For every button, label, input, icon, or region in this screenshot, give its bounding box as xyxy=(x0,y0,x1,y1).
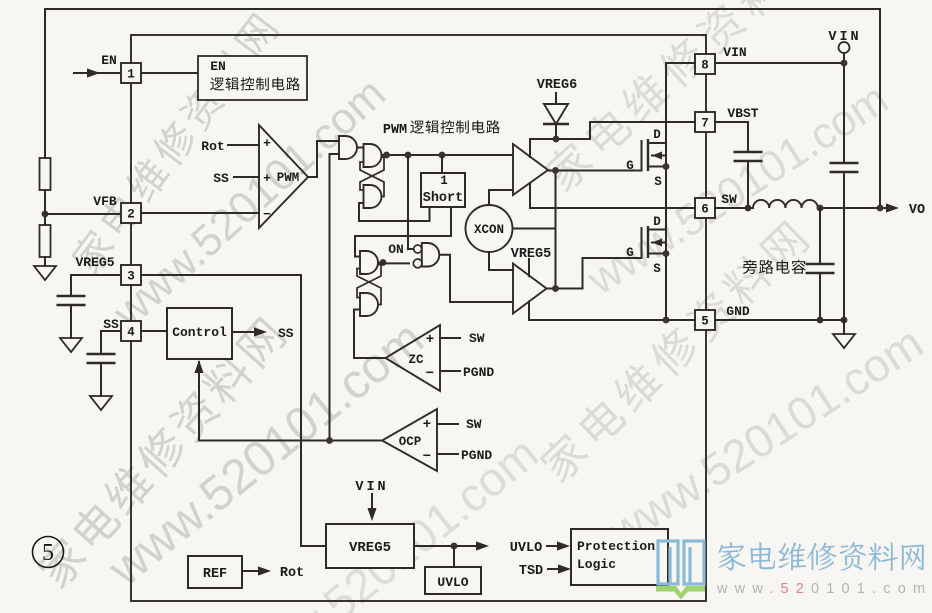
wire gate A to latch xyxy=(357,147,364,149)
wire NAND out to low driver xyxy=(440,255,514,302)
wire SW internal xyxy=(530,207,695,209)
comparator OCP xyxy=(382,409,437,471)
node feedback tap xyxy=(877,205,883,211)
svg-text:Logic: Logic xyxy=(577,557,616,572)
comparator ZC xyxy=(386,325,441,391)
transistor Q1 high FET xyxy=(641,140,643,171)
svg-text:3: 3 xyxy=(127,270,135,284)
svg-text:GND: GND xyxy=(726,304,750,319)
node latch2 out xyxy=(380,259,386,265)
node low gate xyxy=(552,285,558,291)
svg-text:PGND: PGND xyxy=(463,365,494,380)
svg-text:Rot: Rot xyxy=(280,566,304,581)
capacitor C1 on VREG5 xyxy=(71,275,121,296)
pin 8 xyxy=(695,54,715,74)
node C5 gnd xyxy=(817,317,823,323)
svg-text:Protection: Protection xyxy=(577,539,655,554)
wire latch2 to NAND bubble xyxy=(378,262,409,265)
svg-text:D: D xyxy=(653,128,661,142)
svg-text:5: 5 xyxy=(42,540,54,566)
node OCP junction xyxy=(326,437,332,443)
svg-text:SW: SW xyxy=(466,417,482,432)
svg-text:UVLO: UVLO xyxy=(510,541,542,556)
node VREG5 out xyxy=(451,543,457,549)
EN logic block xyxy=(141,72,198,74)
driver high power pins xyxy=(529,139,531,157)
AND gate A xyxy=(339,136,357,159)
wire Q2 drain-source rail xyxy=(665,208,667,320)
node Q2 gnd xyxy=(663,317,669,323)
wire VIN to Q1 drain xyxy=(666,63,695,208)
svg-text:G: G xyxy=(626,159,634,173)
wire Short to latch2 xyxy=(355,207,451,257)
driver high side xyxy=(513,144,548,195)
node main2 xyxy=(405,152,411,158)
svg-text:5: 5 xyxy=(701,315,709,329)
svg-text:SS: SS xyxy=(103,317,119,332)
pin 2 xyxy=(121,203,141,223)
ground below C2 xyxy=(90,396,112,410)
svg-text:8: 8 xyxy=(701,59,709,73)
wire VBST external xyxy=(715,122,748,152)
svg-text:www.520101.com: www.520101.com xyxy=(716,581,932,597)
svg-text:www.520101.com: www.520101.com xyxy=(598,316,932,558)
label bypass cap xyxy=(743,260,806,274)
node main3 xyxy=(439,152,445,158)
ground right xyxy=(843,320,845,334)
svg-text:SS: SS xyxy=(213,171,229,186)
wire high gate xyxy=(548,170,642,172)
SS output arrow xyxy=(232,331,256,333)
XCON circle xyxy=(466,205,513,252)
svg-text:7: 7 xyxy=(701,117,709,131)
OCP input SW xyxy=(437,423,458,425)
wire PWM output to gate A xyxy=(308,141,339,177)
OCP input PGND xyxy=(437,453,458,455)
pin 3 xyxy=(121,265,141,285)
inductor L1 xyxy=(753,200,818,208)
svg-text:VREG5: VREG5 xyxy=(75,255,114,270)
svg-text:G: G xyxy=(626,246,634,260)
svg-text:VFB: VFB xyxy=(93,194,117,209)
wire GND internal xyxy=(529,319,695,321)
svg-text:SW: SW xyxy=(469,331,485,346)
driver low side xyxy=(513,264,547,314)
pin 1 xyxy=(121,63,141,83)
svg-text:ZC: ZC xyxy=(408,353,424,367)
capacitor C2 on SS xyxy=(101,331,121,354)
AND gate C latch1 bottom xyxy=(364,185,382,208)
svg-text:EN: EN xyxy=(101,53,117,68)
wire VBST rail xyxy=(530,122,695,139)
latch1 cross coupling xyxy=(360,157,384,190)
svg-text:VREG5: VREG5 xyxy=(349,540,391,556)
svg-text:SS: SS xyxy=(278,326,294,341)
svg-text:REF: REF xyxy=(203,567,227,582)
svg-text:+: + xyxy=(263,136,271,151)
svg-text:4: 4 xyxy=(127,326,135,340)
wire VFB to PWM inverting input xyxy=(141,212,259,214)
wire main2 to NAND top bubble xyxy=(408,155,414,249)
svg-text:2: 2 xyxy=(127,208,135,222)
wire VREG5 net pin3 xyxy=(141,275,326,546)
NAND gate ON (bubbled inputs) xyxy=(414,245,422,253)
UVLO block xyxy=(453,546,455,567)
resistor R1 xyxy=(40,158,51,190)
wire GND external xyxy=(715,319,844,321)
wire OCP to gate A input xyxy=(330,154,340,441)
AND gate E latch2 bottom xyxy=(360,293,378,316)
svg-text:ON: ON xyxy=(388,242,404,257)
pin 4 xyxy=(121,321,141,341)
svg-text:www.520101.com: www.520101.com xyxy=(103,69,395,338)
node Q1 source xyxy=(663,163,669,169)
REF to Rot arrow xyxy=(242,570,258,572)
ZC input PGND xyxy=(440,370,460,372)
svg-text:6: 6 xyxy=(701,203,709,217)
node C3 gnd xyxy=(841,317,847,323)
ground below C1 xyxy=(60,338,82,352)
svg-text:−: − xyxy=(263,207,271,222)
AND gate B latch1 top xyxy=(364,144,382,167)
driver low power pins xyxy=(528,259,530,276)
node high gate xyxy=(552,167,558,173)
wire XCON to low driver xyxy=(489,252,513,270)
svg-text:+: + xyxy=(423,417,431,433)
svg-text:XCON: XCON xyxy=(474,223,504,237)
wire VREG5 output xyxy=(414,545,480,547)
capacitor C5 bypass xyxy=(819,208,821,264)
svg-text:PWM: PWM xyxy=(277,171,300,185)
svg-text:VREG5: VREG5 xyxy=(511,247,552,262)
wire XCON to gates sense xyxy=(513,228,556,230)
wire low gate xyxy=(547,258,642,289)
pin 5 xyxy=(695,310,715,330)
node main1 xyxy=(383,152,389,158)
pin 7 xyxy=(695,112,715,132)
wire VO xyxy=(818,207,886,209)
IC boundary xyxy=(131,35,706,601)
resistor R2 xyxy=(40,225,51,257)
capacitor C3 input cap xyxy=(830,162,859,165)
wire ZC out to latch2 E input xyxy=(354,310,386,359)
svg-text:S: S xyxy=(654,175,662,189)
svg-text:VIN: VIN xyxy=(355,480,388,495)
svg-text:1: 1 xyxy=(127,68,135,82)
node inductor out xyxy=(817,205,823,211)
latch2 cross coupling xyxy=(357,265,381,298)
one-shot Short block xyxy=(441,155,443,173)
EN input arrow xyxy=(74,72,120,74)
node VFB divider junction xyxy=(42,211,48,217)
svg-text:VBST: VBST xyxy=(727,106,758,121)
op-amp PWM comparator xyxy=(259,125,308,228)
svg-text:D: D xyxy=(653,215,661,229)
node VIN junction xyxy=(841,60,847,66)
svg-text:PGND: PGND xyxy=(461,448,492,463)
svg-text:TSD: TSD xyxy=(519,564,543,579)
svg-text:−: − xyxy=(423,449,431,465)
pin 6 xyxy=(695,198,715,218)
capacitor C4 bootstrap xyxy=(734,151,763,154)
svg-text:SW: SW xyxy=(721,192,737,207)
REF block xyxy=(188,556,242,588)
svg-text:+: + xyxy=(263,171,271,186)
svg-text:VIN: VIN xyxy=(723,45,746,60)
Protection Logic block xyxy=(571,529,668,585)
svg-text:OCP: OCP xyxy=(399,435,422,449)
node Q2 source xyxy=(663,250,669,256)
svg-text:Rot: Rot xyxy=(201,139,224,154)
wire output feedback to top xyxy=(44,190,46,214)
transistor Q2 low FET xyxy=(641,227,643,259)
AND gate D latch2 top xyxy=(360,251,378,274)
node diode VBST xyxy=(553,136,559,142)
svg-text:UVLO: UVLO xyxy=(437,575,468,590)
svg-text:1: 1 xyxy=(440,174,448,188)
svg-text:+: + xyxy=(426,332,434,348)
wire VIN node xyxy=(715,62,844,64)
wire PWM logic main xyxy=(382,154,514,156)
svg-text:EN: EN xyxy=(210,59,226,74)
wire XCON to high driver xyxy=(489,190,513,205)
svg-text:VO: VO xyxy=(909,203,925,218)
node SW bootstrap xyxy=(745,205,751,211)
Control block xyxy=(141,330,167,332)
wire VFB xyxy=(45,213,121,215)
svg-text:S: S xyxy=(653,262,661,276)
svg-text:−: − xyxy=(426,366,434,382)
ZC input SW xyxy=(440,337,460,339)
wire OCP output to Control xyxy=(199,362,382,441)
svg-text:Control: Control xyxy=(172,325,227,340)
figure number 5 xyxy=(33,537,64,568)
wire SW to inductor xyxy=(715,207,753,209)
regulator VREG5 block xyxy=(326,524,414,568)
svg-text:Short: Short xyxy=(423,191,464,206)
ground below R2 xyxy=(44,257,46,266)
svg-text:VREG6: VREG6 xyxy=(537,78,578,93)
wire latch1 C input from Short xyxy=(359,203,430,221)
svg-text:PWM: PWM xyxy=(383,123,407,138)
